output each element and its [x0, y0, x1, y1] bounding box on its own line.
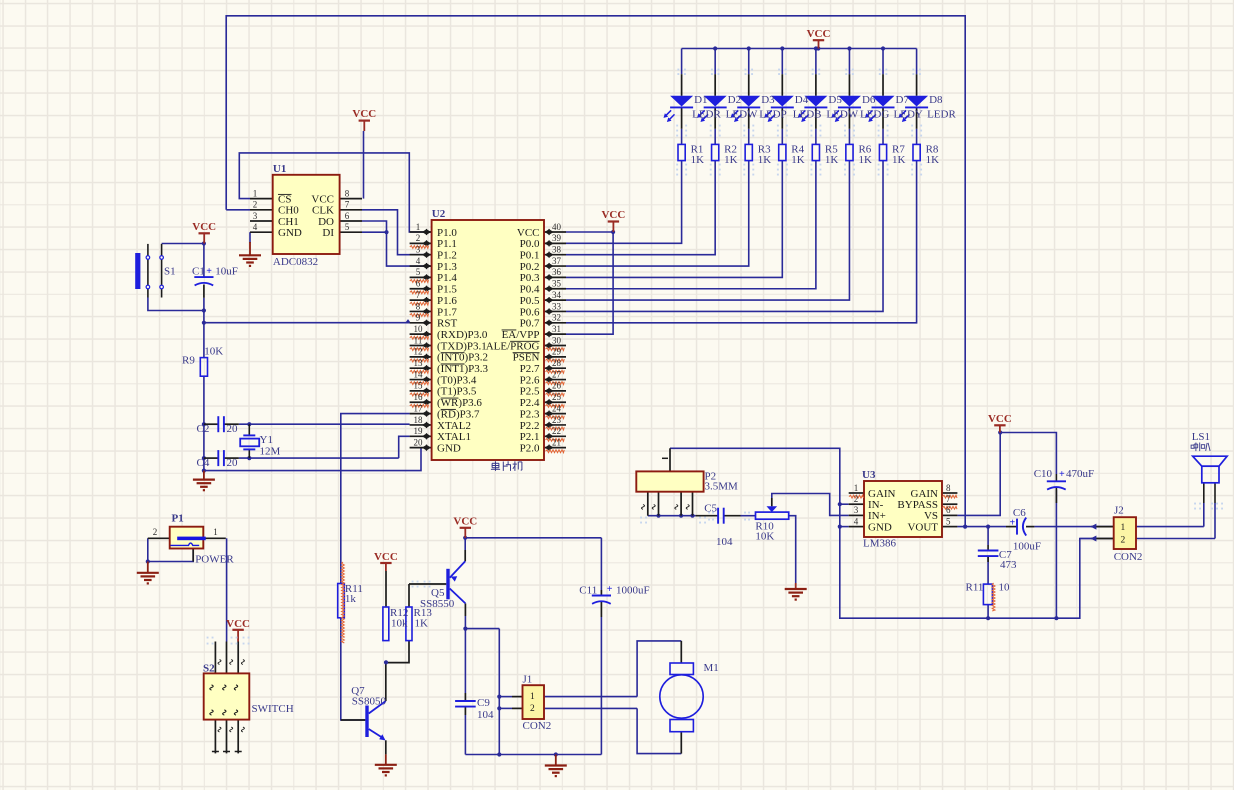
- svg-text:LEDY: LEDY: [894, 108, 923, 120]
- svg-text:C1: C1: [192, 266, 205, 278]
- svg-text:31: 31: [552, 324, 561, 334]
- svg-text:23: 23: [552, 415, 562, 425]
- svg-text:4: 4: [253, 222, 258, 232]
- svg-text:ALE/PROG: ALE/PROG: [486, 340, 540, 352]
- svg-text:37: 37: [552, 256, 562, 266]
- svg-text:C5: C5: [704, 503, 717, 515]
- svg-text:C2: C2: [197, 423, 210, 435]
- svg-text:VOUT: VOUT: [907, 521, 938, 533]
- svg-text:D4: D4: [795, 94, 809, 106]
- svg-text:C11: C11: [579, 585, 597, 597]
- svg-text:5: 5: [345, 222, 350, 232]
- svg-text:17: 17: [414, 403, 424, 413]
- svg-text:(INT0)P3.2: (INT0)P3.2: [437, 352, 488, 364]
- svg-text:2: 2: [854, 494, 859, 504]
- svg-text:26: 26: [552, 381, 562, 391]
- svg-text:38: 38: [552, 245, 562, 255]
- svg-text:473: 473: [1000, 559, 1017, 571]
- svg-text:POWER: POWER: [195, 554, 234, 566]
- svg-text:9: 9: [416, 313, 421, 323]
- svg-text:P1.1: P1.1: [437, 238, 457, 250]
- svg-text:27: 27: [552, 369, 562, 379]
- svg-text:5: 5: [416, 267, 421, 277]
- svg-text:470uF: 470uF: [1066, 468, 1094, 480]
- svg-text:1000uF: 1000uF: [616, 585, 650, 597]
- svg-text:VCC: VCC: [192, 221, 216, 233]
- svg-text:1K: 1K: [892, 154, 906, 166]
- svg-text:ADC0832: ADC0832: [273, 256, 318, 268]
- svg-text:Y1: Y1: [260, 434, 273, 446]
- svg-text:CH0: CH0: [278, 205, 299, 217]
- svg-text:DO: DO: [318, 216, 334, 228]
- svg-text:1: 1: [854, 483, 859, 493]
- svg-text:10: 10: [999, 582, 1011, 594]
- svg-text:10uF: 10uF: [215, 266, 238, 278]
- svg-text:P1.5: P1.5: [437, 284, 457, 296]
- svg-text:CON2: CON2: [1114, 551, 1143, 563]
- svg-text:XTAL2: XTAL2: [437, 420, 471, 432]
- svg-text:(T1)P3.5: (T1)P3.5: [437, 386, 477, 398]
- svg-text:3: 3: [253, 211, 258, 221]
- svg-text:12: 12: [414, 347, 423, 357]
- svg-text:P2.3: P2.3: [520, 408, 540, 420]
- svg-text:LEDW: LEDW: [726, 108, 758, 120]
- svg-text:P1.3: P1.3: [437, 261, 457, 273]
- svg-text:SS8550: SS8550: [420, 598, 455, 610]
- svg-text:20: 20: [227, 423, 239, 435]
- svg-text:14: 14: [414, 369, 424, 379]
- svg-text:1: 1: [213, 527, 218, 537]
- svg-text:D2: D2: [728, 94, 741, 106]
- svg-text:P2.7: P2.7: [520, 363, 540, 375]
- svg-text:P0.4: P0.4: [520, 284, 540, 296]
- svg-text:RST: RST: [437, 318, 457, 330]
- svg-text:CH1: CH1: [278, 216, 299, 228]
- svg-text:BYPASS: BYPASS: [897, 499, 938, 511]
- svg-text:S1: S1: [164, 266, 176, 278]
- svg-text:U3: U3: [862, 469, 876, 481]
- svg-text:3: 3: [854, 505, 859, 515]
- svg-text:(RD)P3.7: (RD)P3.7: [437, 408, 480, 420]
- svg-text:C10: C10: [1034, 468, 1053, 480]
- svg-text:GAIN: GAIN: [911, 488, 939, 500]
- svg-text:10k: 10k: [391, 618, 408, 630]
- svg-text:R11: R11: [966, 582, 984, 594]
- svg-text:19: 19: [414, 426, 424, 436]
- svg-text:VCC: VCC: [352, 108, 376, 120]
- svg-text:P2.2: P2.2: [520, 420, 540, 432]
- svg-text:18: 18: [414, 415, 424, 425]
- svg-text:3: 3: [416, 245, 421, 255]
- svg-text:C4: C4: [197, 457, 210, 469]
- svg-text:VCC: VCC: [517, 227, 540, 239]
- svg-text:EA/VPP: EA/VPP: [502, 329, 540, 341]
- svg-text:IN+: IN+: [868, 510, 886, 522]
- svg-text:4: 4: [416, 256, 421, 266]
- svg-text:SS8050: SS8050: [352, 696, 387, 708]
- svg-text:PSEN: PSEN: [513, 352, 540, 364]
- svg-text:GND: GND: [868, 521, 892, 533]
- svg-text:P1: P1: [172, 513, 184, 525]
- svg-text:P2.6: P2.6: [520, 374, 540, 386]
- svg-text:S2: S2: [203, 663, 215, 675]
- svg-text:1K: 1K: [724, 154, 738, 166]
- svg-text:VCC: VCC: [453, 516, 477, 528]
- svg-text:+: +: [607, 584, 613, 595]
- svg-text:1K: 1K: [791, 154, 805, 166]
- svg-text:40: 40: [552, 222, 562, 232]
- svg-text:DI: DI: [322, 227, 334, 239]
- svg-text:(RXD)P3.0: (RXD)P3.0: [437, 329, 488, 341]
- svg-text:28: 28: [552, 358, 562, 368]
- svg-text:10: 10: [414, 324, 424, 334]
- svg-text:R9: R9: [182, 355, 195, 367]
- svg-text:5: 5: [946, 516, 951, 526]
- svg-text:16: 16: [414, 392, 424, 402]
- svg-text:(WR)P3.6: (WR)P3.6: [437, 397, 482, 409]
- svg-text:M1: M1: [704, 662, 719, 674]
- svg-text:20: 20: [414, 437, 424, 447]
- svg-text:VCC: VCC: [601, 209, 625, 221]
- svg-text:U2: U2: [432, 208, 446, 220]
- svg-text:VCC: VCC: [374, 551, 398, 563]
- svg-text:100uF: 100uF: [1013, 541, 1041, 553]
- svg-text:39: 39: [552, 233, 562, 243]
- svg-text:P0.1: P0.1: [520, 250, 540, 262]
- svg-text:VCC: VCC: [988, 413, 1012, 425]
- svg-text:2: 2: [1121, 535, 1126, 545]
- svg-text:P1.0: P1.0: [437, 227, 457, 239]
- svg-text:IN-: IN-: [868, 499, 884, 511]
- svg-text:GAIN: GAIN: [868, 488, 896, 500]
- svg-text:P0.2: P0.2: [520, 261, 540, 273]
- svg-text:P2.0: P2.0: [520, 442, 540, 454]
- svg-text:CS: CS: [278, 193, 291, 205]
- svg-text:LEDW: LEDW: [826, 108, 858, 120]
- svg-text:104: 104: [477, 709, 494, 721]
- svg-text:1: 1: [253, 188, 258, 198]
- svg-text:C9: C9: [477, 697, 490, 709]
- svg-text:P0.7: P0.7: [520, 318, 540, 330]
- svg-text:22: 22: [552, 426, 561, 436]
- svg-text:P0.3: P0.3: [520, 272, 540, 284]
- svg-text:1K: 1K: [758, 154, 772, 166]
- svg-text:21: 21: [552, 437, 561, 447]
- svg-text:34: 34: [552, 290, 562, 300]
- svg-text:(INT1)P3.3: (INT1)P3.3: [437, 363, 489, 375]
- svg-text:GND: GND: [437, 442, 461, 454]
- svg-text:1K: 1K: [691, 154, 705, 166]
- svg-text:LS1: LS1: [1192, 431, 1210, 443]
- svg-text:1k: 1k: [345, 593, 357, 605]
- svg-text:+: +: [1059, 469, 1065, 480]
- svg-text:LEDR: LEDR: [692, 108, 721, 120]
- svg-text:15: 15: [414, 381, 424, 391]
- svg-text:25: 25: [552, 392, 562, 402]
- svg-text:1: 1: [530, 692, 535, 702]
- svg-text:LEDG: LEDG: [860, 108, 889, 120]
- svg-text:6: 6: [345, 211, 350, 221]
- svg-text:4: 4: [854, 516, 859, 526]
- svg-text:10K: 10K: [204, 346, 223, 358]
- svg-text:D5: D5: [828, 94, 842, 106]
- svg-text:29: 29: [552, 347, 562, 357]
- svg-text:35: 35: [552, 279, 562, 289]
- svg-text:8: 8: [345, 188, 350, 198]
- svg-text:1K: 1K: [415, 618, 429, 630]
- svg-text:P1.4: P1.4: [437, 272, 457, 284]
- svg-text:12M: 12M: [260, 446, 281, 458]
- svg-text:XTAL1: XTAL1: [437, 431, 471, 443]
- svg-text:SWITCH: SWITCH: [252, 703, 294, 715]
- svg-text:30: 30: [552, 335, 562, 345]
- svg-text:VS: VS: [924, 510, 938, 522]
- svg-text:P2.1: P2.1: [520, 431, 540, 443]
- svg-text:J1: J1: [523, 674, 533, 686]
- svg-text:2: 2: [530, 704, 535, 714]
- svg-text:CLK: CLK: [312, 205, 334, 217]
- svg-text:GND: GND: [278, 227, 302, 239]
- svg-text:P2.4: P2.4: [520, 397, 540, 409]
- svg-text:1: 1: [416, 222, 421, 232]
- svg-text:6: 6: [946, 505, 951, 515]
- svg-text:104: 104: [716, 536, 733, 548]
- svg-text:VCC: VCC: [226, 618, 250, 630]
- svg-text:J2: J2: [1114, 505, 1124, 517]
- svg-text:P1.6: P1.6: [437, 295, 457, 307]
- svg-text:LEDR: LEDR: [927, 108, 956, 120]
- svg-text:P0.5: P0.5: [520, 295, 540, 307]
- svg-text:2: 2: [416, 233, 421, 243]
- svg-text:8: 8: [946, 483, 951, 493]
- svg-text:2: 2: [253, 200, 258, 210]
- svg-text:7: 7: [416, 290, 421, 300]
- svg-text:8: 8: [416, 301, 421, 311]
- svg-text:D1: D1: [694, 94, 707, 106]
- svg-text:P0.6: P0.6: [520, 306, 540, 318]
- svg-text:LEDP: LEDP: [759, 108, 787, 120]
- svg-text:(TXD)P3.1: (TXD)P3.1: [437, 340, 487, 352]
- svg-text:P1.7: P1.7: [437, 306, 457, 318]
- svg-text:D3: D3: [761, 94, 775, 106]
- svg-text:D8: D8: [929, 94, 943, 106]
- svg-text:33: 33: [552, 301, 562, 311]
- svg-text:1: 1: [1121, 523, 1126, 533]
- svg-text:1K: 1K: [926, 154, 940, 166]
- svg-text:7: 7: [946, 494, 951, 504]
- svg-text:D6: D6: [862, 94, 876, 106]
- svg-text:7: 7: [345, 200, 350, 210]
- svg-text:(T0)P3.4: (T0)P3.4: [437, 374, 477, 386]
- svg-text:24: 24: [552, 403, 562, 413]
- svg-text:LEDB: LEDB: [793, 108, 822, 120]
- svg-text:P1.2: P1.2: [437, 250, 457, 262]
- svg-text:2: 2: [153, 527, 158, 537]
- svg-text:6: 6: [416, 279, 421, 289]
- svg-text:1K: 1K: [825, 154, 839, 166]
- svg-text:LM386: LM386: [863, 538, 897, 550]
- svg-text:11: 11: [414, 335, 423, 345]
- svg-text:3.5MM: 3.5MM: [705, 481, 739, 493]
- svg-text:U1: U1: [273, 163, 286, 175]
- svg-text:36: 36: [552, 267, 562, 277]
- svg-text:1K: 1K: [858, 154, 872, 166]
- svg-text:10K: 10K: [755, 531, 774, 543]
- svg-text:VCC: VCC: [807, 28, 831, 40]
- svg-text:CON2: CON2: [523, 720, 552, 732]
- svg-text:13: 13: [414, 358, 424, 368]
- svg-text:VCC: VCC: [311, 193, 334, 205]
- svg-text:D7: D7: [896, 94, 910, 106]
- svg-text:P0.0: P0.0: [520, 238, 540, 250]
- svg-text:+: +: [1010, 518, 1016, 529]
- svg-text:32: 32: [552, 313, 561, 323]
- svg-text:+: +: [206, 266, 212, 277]
- svg-text:20: 20: [227, 457, 239, 469]
- svg-text:P2.5: P2.5: [520, 386, 540, 398]
